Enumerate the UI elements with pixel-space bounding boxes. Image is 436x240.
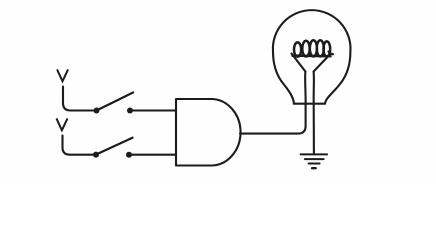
lamp filament coil: [293, 40, 334, 56]
switch S2 pole junction: [93, 152, 99, 158]
lamp lead left (stem): [304, 72, 307, 105]
switch S2 throw junction: [126, 152, 132, 158]
wire V1 stub: [63, 87, 94, 111]
wire gate output to lamp: [240, 104, 306, 134]
node V1 label: [57, 70, 67, 81]
switch S1 throw junction: [127, 108, 133, 114]
switch S1 pole junction: [94, 108, 100, 114]
lamp filament support right: [314, 54, 331, 72]
lamp filament support left: [292, 54, 306, 72]
lamp base line: [294, 103, 325, 105]
lamp lead right (stem to ground): [313, 72, 315, 154]
switch S1 arm: [99, 93, 134, 110]
node V2 label: [57, 119, 67, 130]
wire S2 to gate input B: [132, 154, 176, 156]
and-gate U1: [176, 99, 241, 166]
ground: [301, 154, 328, 168]
lamp DS1 envelope: [273, 10, 351, 103]
switch S2 arm: [98, 138, 133, 154]
wire S1 to gate input A: [133, 109, 176, 111]
wire V2 stub: [63, 136, 94, 155]
